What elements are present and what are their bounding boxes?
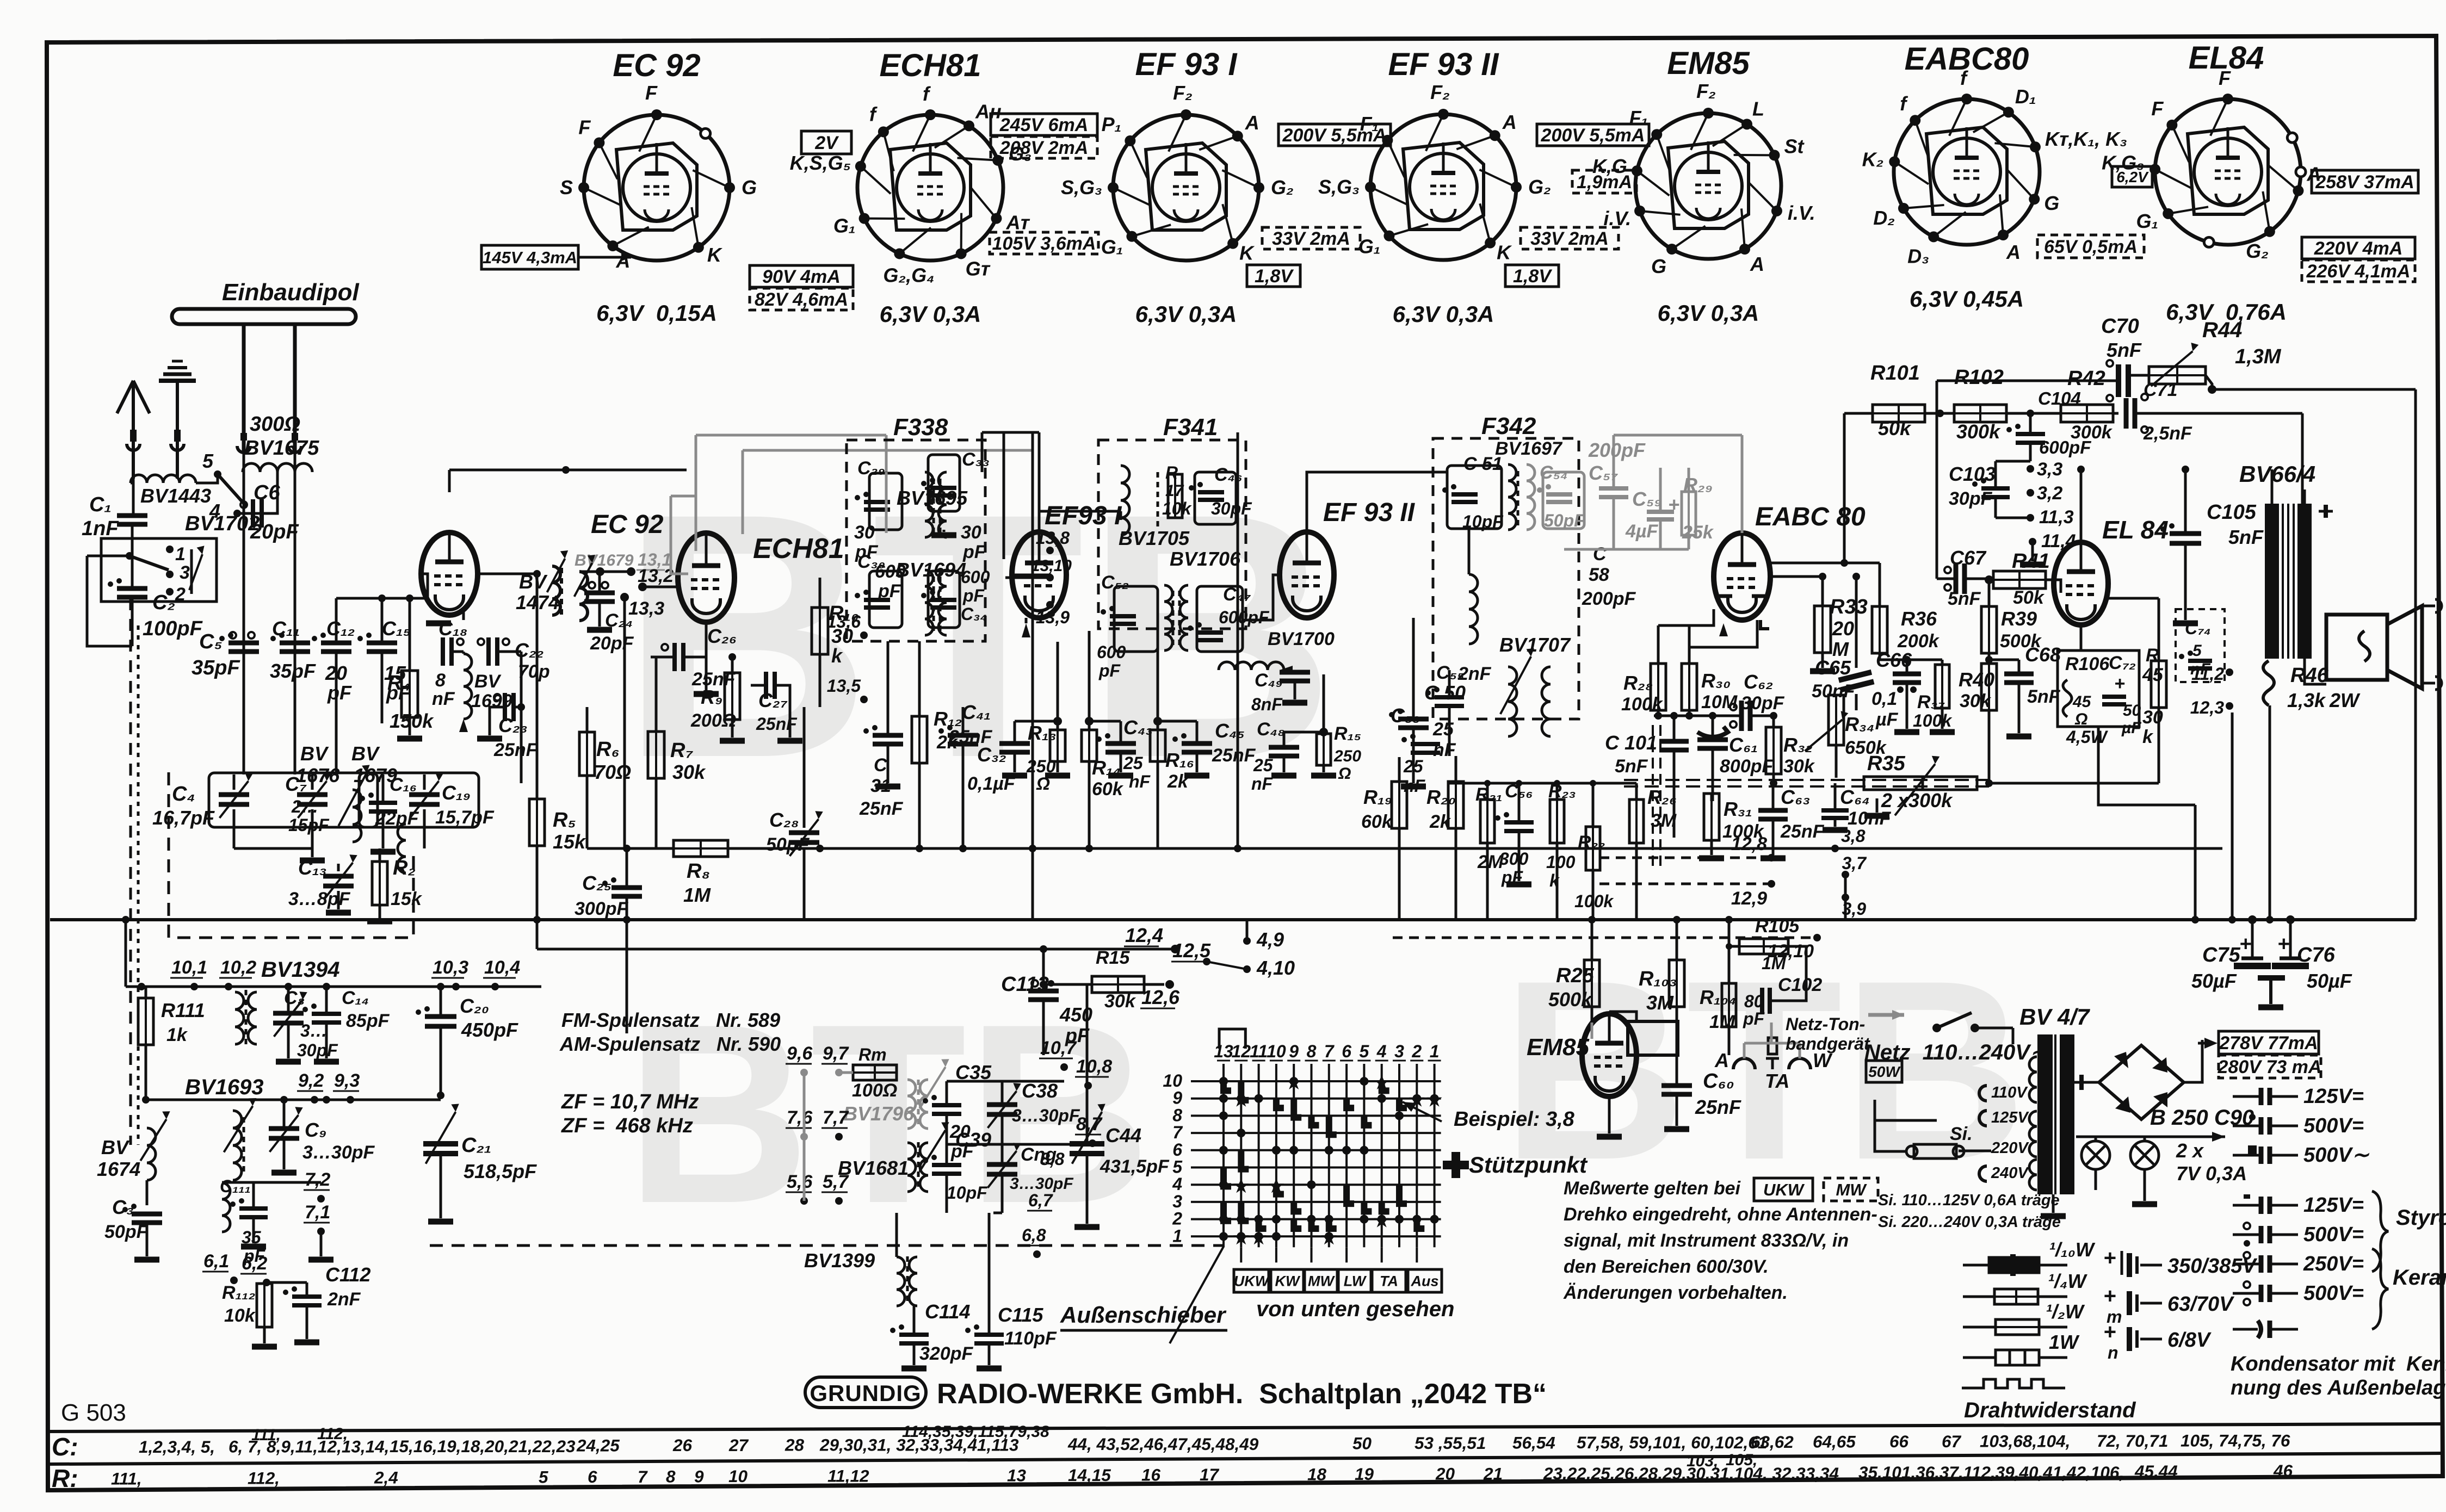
- svg-text:R₉: R₉: [701, 686, 722, 708]
- svg-text:6: 6: [588, 1467, 597, 1486]
- wire EF93I anode to top bus: [1038, 432, 1041, 532]
- svg-text:D₂: D₂: [1873, 207, 1895, 229]
- svg-text:C102: C102: [1778, 975, 1822, 995]
- svg-text:17: 17: [1200, 1465, 1220, 1484]
- terminal 4,10: [1243, 965, 1251, 973]
- svg-text:Kᴛ,K₁, K₃: Kᴛ,K₁, K₃: [2045, 128, 2127, 150]
- svg-text:D₃: D₃: [1907, 245, 1929, 267]
- svg-text:Meßwerte gelten bei: Meßwerte gelten bei: [1564, 1178, 1741, 1199]
- svg-text:Änderungen vorbehalten.: Änderungen vorbehalten.: [1563, 1282, 1788, 1303]
- svg-text:15,16,19,18,20,21,22,23: 15,16,19,18,20,21,22,23: [390, 1436, 576, 1456]
- EF93II box 1,8V: [1505, 265, 1559, 287]
- svg-text:Netz-Ton-: Netz-Ton-: [1786, 1014, 1865, 1034]
- svg-text:11: 11: [1250, 1042, 1268, 1061]
- wire EC92 right to BV1474: [478, 573, 537, 575]
- svg-text:85pF: 85pF: [346, 1011, 390, 1031]
- svg-text:60k: 60k: [1092, 779, 1124, 800]
- svg-text:258V 37mA: 258V 37mA: [2315, 172, 2414, 193]
- svg-text:BV1693: BV1693: [185, 1075, 264, 1099]
- svg-text:600: 600: [961, 567, 990, 587]
- svg-text:14,15: 14,15: [1068, 1465, 1111, 1485]
- svg-text:25nF: 25nF: [756, 714, 798, 734]
- switch matrix contact staples: [1224, 1081, 1424, 1229]
- svg-text:30: 30: [854, 522, 875, 543]
- svg-text:F341: F341: [1163, 414, 1218, 441]
- svg-text:BV1394: BV1394: [261, 958, 340, 982]
- svg-text:500V=: 500V=: [2303, 1223, 2364, 1246]
- svg-text:C₁: C₁: [89, 493, 112, 516]
- svg-text:C₂₀: C₂₀: [460, 995, 489, 1017]
- svg-text:R106: R106: [2065, 654, 2110, 674]
- wire antenna bus to C6: [243, 451, 245, 472]
- svg-text:BV1702: BV1702: [185, 512, 260, 535]
- svg-text:1: 1: [1172, 1226, 1182, 1245]
- svg-text:111,: 111,: [111, 1468, 142, 1488]
- svg-text:13: 13: [1214, 1042, 1233, 1061]
- svg-text:Rm: Rm: [858, 1045, 887, 1064]
- band box TA: [1372, 1269, 1406, 1292]
- svg-text:9,3: 9,3: [334, 1070, 360, 1091]
- svg-text:110pF: 110pF: [1004, 1328, 1057, 1349]
- arrow Aussenschieber to matrix: [1170, 1247, 1224, 1343]
- coil BV1443: [131, 475, 196, 483]
- svg-text:12,4: 12,4: [1125, 924, 1163, 946]
- svg-text:1,8V: 1,8V: [1255, 266, 1294, 287]
- wire C111 row: [222, 1181, 254, 1184]
- svg-text:k: k: [1549, 871, 1560, 890]
- svg-text:112,: 112,: [317, 1425, 348, 1443]
- legend resistor 1W: [1963, 1356, 1996, 1359]
- svg-text:C₁₉: C₁₉: [442, 782, 471, 804]
- svg-text:Keramik: Keramik: [2393, 1266, 2446, 1290]
- svg-text:signal, mit Instrument 833Ω/V,: signal, mit Instrument 833Ω/V, in: [1564, 1230, 1849, 1251]
- bridge diodes: [2114, 1052, 2128, 1068]
- svg-text:9,7: 9,7: [823, 1043, 849, 1064]
- svg-text:6,3V 0,3A: 6,3V 0,3A: [1135, 301, 1237, 327]
- svg-text:5: 5: [2192, 642, 2202, 660]
- legend cap styroflex 500V: [2244, 1223, 2250, 1229]
- wire dipole right down: [294, 472, 297, 774]
- terminal 13,2: [638, 583, 647, 591]
- svg-text:Aʜ: Aʜ: [975, 100, 1002, 122]
- wires F338 to anode ECH81: [885, 472, 888, 533]
- svg-text:C: C: [874, 755, 887, 776]
- svg-text:105,: 105,: [1726, 1451, 1757, 1469]
- rectifier bridge B250C90: [2099, 1045, 2184, 1119]
- svg-text:18: 18: [1307, 1464, 1327, 1484]
- wire anode EF93I to F341 top: [1038, 511, 1041, 532]
- coil BV1677 mid: [398, 824, 406, 873]
- svg-text:3,7: 3,7: [1842, 853, 1868, 873]
- svg-text:70Ω: 70Ω: [594, 761, 631, 783]
- svg-text:C₄₉: C₄₉: [1255, 670, 1283, 691]
- EF93I box 200V 5,5mA: [1278, 124, 1391, 146]
- EC92 cathode wire to ground: [462, 611, 465, 620]
- svg-text:105, 74,75, 76: 105, 74,75, 76: [2181, 1431, 2290, 1451]
- svg-text:Kondensator mit Kennzeich-: Kondensator mit Kennzeich-: [2231, 1353, 2446, 1375]
- svg-text:50k: 50k: [1878, 417, 1912, 439]
- wire right edge vertical from R44: [2414, 389, 2417, 920]
- F338 lower coil BV1695: [925, 570, 933, 635]
- dashed AF bus pair: [1624, 779, 1991, 781]
- svg-text:RADIO-WERKE GmbH. Schaltplan: RADIO-WERKE GmbH. Schaltplan „2042 TB“: [937, 1378, 1547, 1410]
- svg-text:72, 70,71: 72, 70,71: [2097, 1431, 2168, 1451]
- legend cap keramik 500V: [2244, 1281, 2250, 1288]
- svg-text:2: 2: [1172, 1209, 1182, 1229]
- svg-text:2,4: 2,4: [374, 1468, 398, 1488]
- svg-text:BV66/4: BV66/4: [2239, 461, 2315, 487]
- svg-text:L: L: [1752, 97, 1764, 120]
- svg-text:8,8: 8,8: [1040, 1149, 1065, 1169]
- svg-text:C₂₈: C₂₈: [769, 809, 799, 831]
- stuetzpunkt cross symbol: [1443, 1152, 1469, 1178]
- svg-text:k: k: [2142, 727, 2154, 747]
- svg-text:600pF: 600pF: [1219, 608, 1270, 627]
- terminal 12,9: [1768, 880, 1775, 888]
- EF93I box 33V 2mA dashed: [1262, 227, 1360, 249]
- dial lamps wires: [2076, 1136, 2225, 1138]
- F341 lower coils: [1164, 585, 1172, 650]
- svg-text:300Ω: 300Ω: [250, 413, 300, 436]
- svg-text:2W: 2W: [2329, 689, 2361, 711]
- IF transformer F338 dashed box: [847, 440, 985, 641]
- svg-text:F: F: [2151, 97, 2164, 120]
- svg-text:F: F: [645, 82, 658, 104]
- svg-text:Einbaudipol: Einbaudipol: [222, 279, 360, 306]
- svg-text:R105: R105: [1755, 916, 1800, 937]
- svg-text:15,7pF: 15,7pF: [435, 807, 495, 828]
- main tuning dashed lines: [129, 598, 132, 1145]
- switch matrix stuetzpunkt crosses: [1286, 1075, 1301, 1089]
- svg-text:C₆₂: C₆₂: [1744, 671, 1773, 693]
- svg-text:278V 77mA: 278V 77mA: [2219, 1033, 2318, 1054]
- svg-text:518,5pF: 518,5pF: [464, 1160, 537, 1182]
- svg-text:7,1: 7,1: [305, 1202, 330, 1223]
- svg-text:9: 9: [1289, 1042, 1299, 1061]
- svg-text:A: A: [1750, 253, 1764, 275]
- svg-text:G: G: [2044, 192, 2059, 214]
- transformer primary winding: [2029, 1057, 2037, 1102]
- svg-text:Si. 220…240V 0,3A träge: Si. 220…240V 0,3A träge: [1878, 1213, 2061, 1231]
- svg-text:10: 10: [728, 1466, 748, 1486]
- svg-text:1W: 1W: [2049, 1331, 2080, 1353]
- svg-text:3…8pF: 3…8pF: [288, 889, 351, 909]
- wire oscillator top bus: [947, 1080, 1064, 1083]
- svg-text:Beispiel: 3,8: Beispiel: 3,8: [1454, 1108, 1575, 1131]
- EL84 box 6,2V: [2112, 166, 2152, 187]
- svg-text:9: 9: [1172, 1088, 1182, 1108]
- legend brace Keramik: [2372, 1249, 2388, 1329]
- svg-text:1,8V: 1,8V: [1513, 266, 1553, 287]
- svg-text:k: k: [831, 645, 843, 667]
- svg-text:10,8: 10,8: [1076, 1056, 1112, 1077]
- svg-text:BV: BV: [351, 742, 380, 765]
- svg-text:C₂: C₂: [152, 591, 175, 614]
- svg-text:C: C: [1593, 544, 1607, 565]
- EF93II box 33V 2mA dashed: [1521, 227, 1619, 249]
- svg-text:70p: 70p: [518, 661, 550, 682]
- ECH81 box 90V 4mA: [750, 265, 853, 287]
- svg-text:EF 93 II: EF 93 II: [1388, 47, 1499, 82]
- svg-text:+: +: [2103, 1246, 2116, 1270]
- svg-text:300: 300: [1499, 849, 1529, 869]
- coil BV1399: [897, 1257, 905, 1306]
- F338 lower secondary C34 600pF: [938, 570, 947, 635]
- svg-text:EF 93 II: EF 93 II: [1323, 498, 1416, 527]
- svg-text:5nF: 5nF: [2228, 526, 2264, 548]
- svg-text:7: 7: [1324, 1042, 1335, 1061]
- IF transformer F341 dashed box: [1098, 440, 1246, 629]
- svg-text:25k: 25k: [1682, 522, 1714, 543]
- svg-text:4,5W: 4,5W: [2066, 727, 2108, 747]
- svg-text:35,101,36,37,112,39,40,41,42,1: 35,101,36,37,112,39,40,41,42,106,: [1858, 1463, 2124, 1482]
- tube ECH81: [678, 533, 734, 622]
- svg-text:100k: 100k: [1913, 711, 1953, 730]
- terminal 12,10: [1813, 934, 1821, 941]
- svg-text:C 101: C 101: [1605, 732, 1657, 754]
- EL84 box 258V 37mA: [2312, 170, 2418, 193]
- svg-text:50µF: 50µF: [2307, 970, 2352, 992]
- legend wirewound resistor: [1962, 1379, 2065, 1388]
- svg-text:i.V.: i.V.: [1788, 202, 1815, 224]
- svg-text:30: 30: [961, 522, 981, 543]
- svg-text:F₂: F₂: [1173, 82, 1193, 104]
- svg-text:R25: R25: [1556, 964, 1595, 987]
- svg-text:50µF: 50µF: [2191, 970, 2237, 992]
- coil BV1676: [353, 790, 361, 842]
- svg-text:BV1706: BV1706: [1170, 548, 1241, 570]
- svg-text:+: +: [2103, 1284, 2116, 1308]
- svg-text:BV1707: BV1707: [1499, 634, 1571, 656]
- F341 top coil: [1121, 466, 1129, 535]
- svg-text:13,2: 13,2: [638, 566, 674, 586]
- junction dots left bus: [285, 983, 292, 990]
- wire ECH81 anode bus: [706, 697, 707, 707]
- svg-text:9,2: 9,2: [298, 1070, 324, 1091]
- EF93II box 200V 5,5mA: [1537, 124, 1649, 146]
- svg-text:nF: nF: [1251, 774, 1274, 794]
- gray wires to jacks: [1744, 1042, 1800, 1045]
- svg-text:63/70V: 63/70V: [2167, 1293, 2234, 1316]
- svg-text:Si.: Si.: [1950, 1124, 1973, 1144]
- svg-text:C₅₃: C₅₃: [1391, 704, 1420, 727]
- terminal 11,4: [2029, 538, 2036, 546]
- bus wire y1691 full width: [50, 918, 2416, 921]
- terminal 12,4: [1171, 945, 1179, 953]
- svg-text:F₁: F₁: [1360, 113, 1379, 135]
- svg-text:R41: R41: [2012, 550, 2050, 573]
- wire R45 column to bus: [2194, 805, 2197, 920]
- svg-text:Außenschieber: Außenschieber: [1060, 1302, 1227, 1328]
- svg-text:100k: 100k: [1574, 891, 1614, 911]
- wire oscillator mid bus: [947, 1143, 1092, 1146]
- legend resistor 1/2W: [1963, 1326, 1996, 1329]
- svg-text:220V: 220V: [1991, 1139, 2029, 1157]
- svg-text:35pF: 35pF: [270, 660, 316, 682]
- svg-text:10: 10: [1267, 1042, 1286, 1061]
- svg-text:C:: C:: [52, 1433, 78, 1461]
- svg-text:50W: 50W: [1868, 1063, 1901, 1080]
- svg-text:n: n: [2108, 1343, 2118, 1362]
- EC92 grid wire: [421, 574, 428, 598]
- svg-text:125V=: 125V=: [2303, 1194, 2364, 1217]
- svg-text:BV: BV: [474, 671, 502, 692]
- svg-text:6,8: 6,8: [1022, 1225, 1046, 1245]
- svg-text:G₁: G₁: [1101, 236, 1123, 258]
- svg-text:S,G₃: S,G₃: [1318, 176, 1360, 198]
- svg-text:20: 20: [1435, 1464, 1455, 1484]
- svg-text:4,9: 4,9: [1256, 928, 1284, 951]
- svg-text:BV: BV: [519, 571, 548, 593]
- svg-text:2nF: 2nF: [1457, 664, 1492, 684]
- svg-text:BV1679: BV1679: [575, 551, 634, 569]
- wire C105 column to bus: [2231, 712, 2234, 920]
- svg-text:105V 3,6mA: 105V 3,6mA: [992, 233, 1096, 254]
- svg-text:5,7: 5,7: [823, 1172, 849, 1192]
- svg-text:C114: C114: [925, 1300, 970, 1323]
- svg-text:4: 4: [1172, 1174, 1182, 1194]
- svg-text:FM-Spulensatz Nr. 589: FM-Spulensatz Nr. 589: [561, 1009, 780, 1031]
- svg-text:F: F: [578, 116, 591, 139]
- output transformer BV66/4: [2265, 504, 2279, 659]
- svg-text:26: 26: [672, 1435, 693, 1455]
- F342 lower coil: [1469, 574, 1478, 644]
- svg-text:C115: C115: [998, 1304, 1043, 1326]
- svg-text:82V 4,6mA: 82V 4,6mA: [755, 289, 848, 310]
- svg-text:BV1694: BV1694: [895, 559, 966, 581]
- bottom table line 2: [47, 1453, 2443, 1464]
- svg-text:K: K: [1239, 242, 1255, 264]
- svg-text:C103: C103: [1949, 463, 1996, 485]
- svg-text:R₃₄: R₃₄: [1845, 713, 1874, 735]
- svg-text:65V 0,5mA: 65V 0,5mA: [2044, 237, 2138, 257]
- svg-text:9: 9: [694, 1466, 704, 1486]
- svg-text:4,10: 4,10: [1256, 957, 1295, 979]
- svg-text:6,2V: 6,2V: [2116, 169, 2149, 185]
- svg-text:20pF: 20pF: [250, 520, 299, 543]
- tube socket EF93I: [1113, 115, 1259, 261]
- wire BV66 primary feed: [1951, 469, 1969, 470]
- svg-text:7: 7: [1172, 1123, 1183, 1142]
- svg-text:300pF: 300pF: [575, 898, 628, 919]
- svg-text:13,6: 13,6: [827, 612, 861, 631]
- svg-text:33V 2mA: 33V 2mA: [1272, 228, 1350, 249]
- svg-text:250: 250: [1333, 747, 1361, 765]
- svg-text:R₁₀₃: R₁₀₃: [1639, 968, 1677, 990]
- title GRUNDIG logo: [805, 1377, 926, 1408]
- svg-text:200pF: 200pF: [1582, 588, 1636, 609]
- svg-text:C₃₂: C₃₂: [977, 743, 1006, 766]
- svg-text:280V 73 mA: 280V 73 mA: [2218, 1057, 2322, 1077]
- svg-text:15k: 15k: [391, 889, 423, 909]
- terminal 3,7: [1842, 871, 1849, 878]
- switch matrix lower leads: [1240, 1247, 1242, 1262]
- svg-text:A: A: [2006, 241, 2021, 263]
- wire grid bus EC92: [336, 597, 428, 600]
- svg-text:5nF: 5nF: [1615, 756, 1648, 777]
- box 50W: [1866, 1061, 1902, 1082]
- svg-text:11,12: 11,12: [827, 1466, 869, 1486]
- svg-text:BV1796: BV1796: [843, 1102, 915, 1125]
- transformer ground: [2052, 1194, 2055, 1213]
- svg-text:7,7: 7,7: [823, 1107, 849, 1128]
- tube socket EC92: [584, 115, 730, 261]
- svg-text:220V 4mA: 220V 4mA: [2314, 238, 2403, 259]
- svg-text:16,7pF: 16,7pF: [152, 807, 215, 829]
- svg-text:0,1: 0,1: [1871, 689, 1897, 709]
- svg-text:5,6: 5,6: [787, 1172, 813, 1192]
- svg-text:3,2: 3,2: [2037, 483, 2062, 504]
- svg-text:EF93 I: EF93 I: [1045, 501, 1122, 530]
- svg-text:1k: 1k: [166, 1025, 188, 1045]
- svg-text:BV: BV: [300, 742, 329, 765]
- svg-text:+: +: [2103, 1320, 2116, 1344]
- svg-text:C₇₄: C₇₄: [2185, 618, 2211, 638]
- switch matrix junction dots: [1219, 1077, 1228, 1086]
- svg-text:6,7: 6,7: [1028, 1191, 1054, 1210]
- svg-text:C70: C70: [2101, 315, 2139, 338]
- ECH81 box 2V: [801, 131, 851, 154]
- svg-text:pF: pF: [1098, 661, 1121, 680]
- svg-text:EF 93 I: EF 93 I: [1135, 47, 1238, 82]
- svg-text:+: +: [1668, 493, 1679, 516]
- EM85 grid gray wire: [1591, 1023, 1593, 1039]
- svg-text:BV1705: BV1705: [1119, 527, 1190, 549]
- measure box 278V 77mA: [2219, 1031, 2319, 1054]
- svg-text:12,8: 12,8: [1731, 834, 1767, 854]
- svg-text:G: G: [1651, 255, 1666, 277]
- electrolytic common ground: [2270, 966, 2271, 995]
- svg-text:10,2: 10,2: [220, 957, 256, 978]
- svg-text:C₉: C₉: [305, 1119, 326, 1141]
- switch arm in BV1702: [126, 552, 133, 560]
- F338 secondary coil C33: [938, 472, 947, 537]
- svg-text:A: A: [1502, 111, 1517, 133]
- svg-text:2 x: 2 x: [2176, 1139, 2204, 1162]
- gray wire EABC80 top: [1741, 435, 1744, 533]
- band box Aus: [1408, 1269, 1442, 1292]
- svg-text:C39: C39: [955, 1129, 991, 1151]
- svg-text:250V=: 250V=: [2303, 1253, 2364, 1275]
- wire EL84 cathode to R106 box: [2080, 624, 2083, 650]
- coil BV1681: [907, 1143, 916, 1192]
- svg-text:10,3: 10,3: [433, 957, 468, 978]
- svg-text:R46: R46: [2290, 664, 2329, 687]
- svg-text:8nF: 8nF: [1251, 695, 1283, 714]
- svg-text:LW: LW: [1344, 1273, 1367, 1290]
- legend cap 500V~ square: [2249, 1147, 2256, 1153]
- wire F342 to EABC80: [1579, 498, 1614, 499]
- svg-text:A: A: [615, 250, 630, 272]
- svg-text:C₁₄: C₁₄: [342, 988, 369, 1008]
- tuning box C4 C7: [209, 773, 378, 827]
- svg-text:i.V.: i.V.: [1603, 207, 1631, 230]
- switch matrix grid: [1191, 1064, 1441, 1247]
- svg-text:µF: µF: [2121, 719, 2141, 737]
- measure box 280V 73mA dashed: [2219, 1055, 2321, 1078]
- bridge input left: [2081, 1081, 2099, 1084]
- svg-text:R₄: R₄: [387, 672, 411, 695]
- svg-text:208V 2mA: 208V 2mA: [999, 138, 1089, 158]
- legend cap aussenbelag: [2233, 1328, 2258, 1331]
- svg-text:10: 10: [1163, 1071, 1182, 1090]
- svg-text:53 ,55,51: 53 ,55,51: [1415, 1433, 1486, 1453]
- svg-text:1: 1: [175, 544, 186, 565]
- svg-text:UKW: UKW: [1234, 1273, 1270, 1290]
- dashed wire bottom-left to matrix: [430, 1244, 1224, 1247]
- svg-text:G₂: G₂: [1271, 176, 1294, 199]
- svg-text:35pF: 35pF: [192, 656, 240, 679]
